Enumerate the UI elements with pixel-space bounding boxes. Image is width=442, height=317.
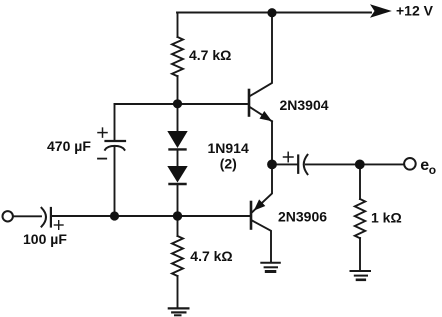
svg-text:+12 V: +12 V [396,3,434,19]
svg-text:4.7 kΩ: 4.7 kΩ [189,47,231,63]
transistor Q2 emitter (from node C down) [252,164,272,212]
transistor Q1 emitter [250,107,272,121]
svg-text:2N3904: 2N3904 [280,97,329,113]
+12 V supply arrowhead [370,4,392,17]
wire: R1 bottom lead to node A [177,76,179,104]
diode D1 1N914 [167,131,187,149]
wire: left vertical from top rail to R1 [177,13,179,38]
svg-text:1 kΩ: 1 kΩ [371,210,402,226]
transistor Q2 2N3906 base bar [250,202,253,229]
wire: D2 to node B [177,184,179,216]
ground G3 (below R3) [351,271,371,280]
node dot: top rail / Q1 collector [267,8,276,17]
transistor Q1 2N3904 base bar [248,90,251,116]
capacitor C2 polarity + [54,221,63,230]
transistor Q1 collector [250,13,272,97]
svg-text:o: o [429,163,436,177]
resistor R2 4.7 kΩ (bottom) [172,236,183,276]
capacitor C2 100 µF plates [42,208,51,227]
wire: R3 to ground [359,238,361,271]
resistor R1 4.7 kΩ (top) [172,37,183,76]
wire: R2 to ground [177,276,179,308]
capacitor C3 output plates [298,155,307,174]
capacitor C1 470 µF plates [105,141,125,150]
output terminal circle e_o [404,158,416,170]
node dot: node C (emitters / C3) [267,160,277,170]
capacitor C3 polarity + [284,152,294,161]
svg-text:(2): (2) [220,156,237,172]
node dot: node A (R1/diodes/C1/Q1 base) [173,99,182,108]
svg-text:4.7 kΩ: 4.7 kΩ [190,248,232,264]
capacitor C1 polarity − [98,158,106,160]
resistor R2 lead from node B [177,216,179,236]
wire: Q1 emitter to node C [271,121,273,164]
resistor R3 1 kΩ [355,199,365,238]
wire: bottom rail (C2 to Q2 base) [51,215,251,217]
capacitor C1 470 µF top lead [114,104,116,140]
svg-text:470 µF: 470 µF [47,138,91,154]
svg-text:2N3906: 2N3906 [278,209,327,225]
node dot: C1 bottom / bottom rail [110,211,119,220]
node dot: node B (bottom rail / diodes / R2) [173,211,182,220]
transistor Q2 collector [252,221,271,263]
node dot: output node (C3 / R3 / e_o) [355,160,365,170]
wire: C1 bottom lead to node [114,148,116,217]
ground G1 (below R2) [169,308,189,315]
wire: C3 to output terminal [306,163,403,165]
wire: diode chain vertical lead [177,104,179,131]
wire: node C to C3 [272,163,297,165]
capacitor C1 polarity + [98,128,107,137]
svg-text:100 µF: 100 µF [23,231,67,247]
wire: +12V top rail [177,12,371,14]
diode D2 1N914 [167,166,187,184]
wire: between diodes [177,149,179,166]
svg-text:1N914: 1N914 [208,140,249,156]
ground G2 (below Q2) [261,263,280,272]
input terminal circle [3,211,13,221]
wire: input to C2 [13,215,41,217]
wire: node A horizontal (cap corner to Q1 base) [115,103,248,105]
resistor R3 lead from output node [359,164,361,199]
